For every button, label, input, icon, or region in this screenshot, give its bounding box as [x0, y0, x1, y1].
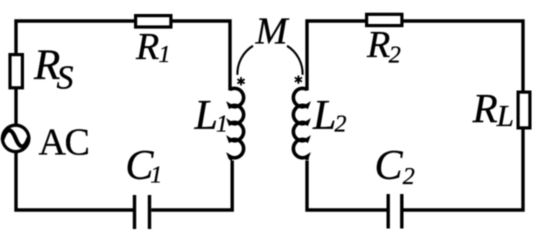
wire right-loop: L2 top up to top-left corner to R2 left: [307, 21, 366, 91]
wire left-loop: C1 left plate to bottom-left corner up to AC bottom: [16, 153, 133, 211]
wire left-loop: Rs top to top-left corner to R1 left: [16, 21, 135, 55]
mutual coupling arc left segment: [237, 46, 253, 75]
svg-text:S: S: [57, 60, 74, 97]
dot-convention asterisk at L2: [295, 76, 301, 83]
svg-text:L: L: [496, 98, 514, 133]
resistor R1: [136, 16, 171, 27]
capacitor C1 plate right: [148, 195, 151, 229]
capacitor C1 plate left: [133, 195, 136, 229]
wire right-loop: RL bottom down to bottom-right corner to C2 right plate: [404, 128, 524, 210]
inductor L1 coil (4 loops bulging right): [230, 88, 244, 159]
resistor R2: [367, 14, 402, 25]
wire left-loop: R1 right to top-right corner down to L1 top: [172, 21, 230, 91]
svg-text:L: L: [312, 93, 336, 139]
svg-text:R: R: [472, 85, 498, 131]
AC source circle: [2, 125, 28, 151]
dot-convention asterisk at L1: [238, 78, 244, 85]
svg-text:AC: AC: [39, 122, 89, 164]
wire left-loop: L1 bottom, down, bottom-right corner, to C1 right plate: [151, 161, 232, 211]
resistor RS: [10, 55, 22, 88]
svg-text:2: 2: [389, 42, 401, 68]
capacitor C2 plate right: [400, 194, 403, 229]
svg-text:2: 2: [403, 164, 415, 190]
svg-text:C: C: [375, 143, 404, 189]
AC source sine wave: [3, 130, 29, 146]
svg-text:L: L: [194, 93, 218, 139]
svg-text:M: M: [255, 11, 290, 53]
resistor RL: [518, 92, 530, 128]
svg-text:1: 1: [216, 112, 228, 138]
svg-text:1: 1: [150, 163, 162, 189]
mutual coupling arc right segment: [287, 46, 303, 75]
wire right-loop: C2 left plate to bottom-left corner up to L2 bottom: [307, 161, 387, 211]
wire right-loop: R2 right, top-right corner, down to RL top: [403, 21, 523, 92]
svg-text:2: 2: [335, 112, 347, 138]
wire left-loop: AC top to Rs bottom: [14, 89, 17, 126]
inductor L2 coil (4 loops bulging left): [293, 88, 307, 160]
svg-text:R: R: [135, 26, 159, 68]
svg-text:R: R: [366, 24, 390, 66]
capacitor C2 plate left: [387, 194, 390, 229]
svg-text:1: 1: [159, 42, 171, 68]
